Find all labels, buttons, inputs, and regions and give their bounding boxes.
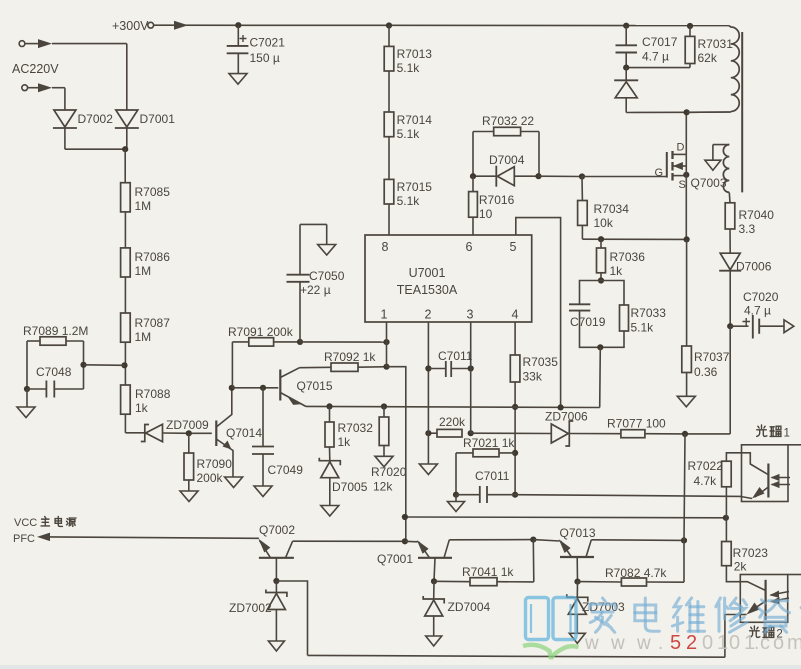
svg-text:1M: 1M	[135, 199, 152, 213]
svg-text:Q7002: Q7002	[259, 523, 295, 537]
ground C7011 lower	[448, 502, 465, 512]
wire R7032 right leg	[521, 132, 539, 177]
node mid bus left	[402, 514, 408, 520]
wire R7082 right leg	[647, 540, 685, 582]
node opto2 label	[750, 626, 783, 641]
node Q7013 base node	[574, 579, 580, 585]
node C7048 left node	[24, 386, 30, 392]
svg-text:R7013: R7013	[397, 47, 433, 61]
svg-text:R7015: R7015	[397, 180, 433, 194]
svg-text:5.1k: 5.1k	[397, 194, 421, 208]
svg-text:5.1k: 5.1k	[397, 61, 421, 75]
svg-text:33k: 33k	[523, 370, 543, 384]
resistor R7033	[600, 281, 666, 348]
node C7049 node	[260, 385, 266, 391]
capacitor C7020	[730, 290, 784, 339]
node rail C7021 junction	[235, 22, 241, 28]
svg-text:R7085: R7085	[135, 185, 171, 199]
svg-text:0.36: 0.36	[694, 365, 718, 379]
node snubber node	[623, 65, 629, 71]
wire R7032 left leg	[473, 132, 494, 177]
node Q7002 base node	[273, 578, 279, 584]
svg-text:6: 6	[466, 240, 473, 254]
svg-text:R7016: R7016	[479, 193, 515, 207]
node D7004 right node	[535, 173, 541, 179]
svg-text:5.1k: 5.1k	[631, 321, 655, 335]
resistor R7032 22ohm	[482, 114, 534, 136]
ground secondary top	[705, 160, 721, 170]
svg-text:5: 5	[510, 240, 517, 254]
svg-text:Q7001: Q7001	[377, 552, 413, 566]
svg-text:D: D	[677, 142, 685, 154]
wire D7006 to C7020 node	[729, 271, 731, 326]
wire pin4 to opto1 emitter	[515, 495, 741, 497]
svg-text:1M: 1M	[135, 330, 152, 344]
capacitor C7011 lower	[456, 469, 515, 503]
wire R7086 to R7087	[124, 277, 126, 313]
watermark url	[584, 632, 801, 654]
wire Q7001 collector right	[449, 539, 533, 541]
wire D7002 bottom to junction	[65, 129, 125, 150]
zener ZD7006	[545, 410, 588, 447]
svg-text:220k: 220k	[439, 415, 466, 429]
wire Q7015 collector to R7092	[300, 366, 332, 368]
wire C7019 bottom to bus	[599, 347, 602, 407]
svg-text:4.7 µ: 4.7 µ	[744, 304, 771, 318]
ground D7005	[321, 506, 339, 517]
wire Q7013 emitter wire	[533, 540, 559, 541]
resistor R7077	[607, 417, 666, 438]
node +300V input terminal	[112, 19, 188, 33]
svg-text:5: 5	[670, 632, 681, 654]
node R7092 node	[383, 364, 389, 370]
svg-text:Q7013: Q7013	[560, 526, 596, 540]
wire R7023 to opto2	[726, 566, 765, 591]
node 220k right node	[468, 430, 474, 436]
svg-text:1k: 1k	[338, 435, 352, 449]
wire R7035 to pin4 lower	[514, 382, 516, 495]
svg-text:C7011: C7011	[475, 469, 510, 483]
transistor Q7013	[559, 526, 596, 557]
svg-text:R7032 22: R7032 22	[482, 114, 534, 128]
svg-text:2: 2	[425, 308, 432, 322]
svg-text:+22 µ: +22 µ	[300, 283, 331, 297]
svg-text:R7077 100: R7077 100	[607, 417, 666, 431]
svg-text:w: w	[610, 633, 625, 654]
svg-text:C7048: C7048	[36, 365, 72, 379]
wire R7091 to C7050 node	[274, 341, 300, 343]
svg-text:R7091 200k: R7091 200k	[228, 325, 294, 339]
svg-text:Q7014: Q7014	[226, 426, 262, 440]
wire R7077 to node	[645, 433, 685, 435]
ground ZD7004	[426, 636, 442, 646]
svg-text:S: S	[679, 179, 686, 191]
node junction A	[122, 146, 128, 152]
node bus R7020 node	[381, 403, 387, 409]
resistor R7022	[688, 459, 732, 488]
ground C7049	[254, 486, 272, 497]
svg-text:C7017: C7017	[642, 35, 678, 49]
svg-text:R7092 1k: R7092 1k	[324, 350, 376, 364]
transistor opto2 phototransistor	[740, 580, 789, 620]
node rail C7017 junction	[623, 23, 629, 29]
resistor R7015	[384, 179, 432, 208]
wire PFC wire	[37, 533, 259, 542]
resistor R7085	[121, 183, 171, 213]
resistor R7016	[469, 176, 515, 235]
wire R7031 bottom link	[626, 64, 690, 68]
node C7011 lower left node	[453, 492, 459, 498]
node mid bus right	[723, 515, 729, 521]
wire emitter bus	[306, 406, 600, 407]
wire C7048 to ground	[26, 389, 28, 407]
zener ZD7003	[567, 582, 625, 634]
node source row node	[684, 236, 690, 242]
node bus pin5 node	[558, 404, 564, 410]
wire R7015 to pin 8	[388, 204, 390, 235]
svg-text:4: 4	[512, 308, 519, 322]
node Q7001 base node	[431, 578, 437, 584]
resistor R7090	[184, 433, 232, 485]
diode D7004	[473, 153, 525, 187]
wire Q7002 collector right	[293, 540, 405, 542]
wire rail to R7013	[388, 26, 390, 47]
wire R7092 to pin1 node	[358, 366, 387, 369]
svg-text:VCC: VCC	[14, 517, 37, 529]
svg-text:10k: 10k	[594, 216, 614, 230]
transistor Q7002	[259, 523, 296, 558]
inductor transformer secondary	[713, 145, 729, 193]
diode D7006	[719, 253, 771, 273]
node AC220V label	[12, 62, 59, 76]
svg-text:C7050: C7050	[309, 269, 345, 283]
svg-text:5.1k: 5.1k	[397, 127, 421, 141]
ground C7048	[17, 407, 35, 418]
svg-text:R7090: R7090	[197, 457, 233, 471]
node pin1 upper node	[383, 339, 389, 345]
svg-text:PFC: PFC	[13, 533, 35, 545]
svg-text:w: w	[636, 633, 651, 654]
wire Q7013 collector right	[591, 539, 684, 542]
wire R7077 node down	[684, 434, 685, 541]
wire R7040 to D7006	[729, 229, 731, 253]
node bus R7032 node	[326, 403, 332, 409]
resistor R7082	[605, 566, 667, 586]
svg-text:R7035: R7035	[523, 355, 559, 369]
node Q7013 collector node	[681, 537, 687, 543]
svg-text:150 µ: 150 µ	[250, 51, 280, 65]
svg-text:2: 2	[686, 632, 697, 654]
wire R7089 right leg	[66, 341, 84, 389]
resistor R7086	[121, 248, 171, 278]
node VCC label	[14, 517, 76, 530]
capacitor C7011 upper	[428, 349, 472, 377]
wire ZD7006 to R7077	[569, 433, 621, 435]
zener D7005	[319, 447, 367, 506]
resistor R7023	[722, 542, 769, 574]
wire pin3 line	[470, 322, 472, 433]
zener ZD7002	[229, 581, 287, 641]
resistor R7020	[371, 407, 407, 494]
node R7089 right node	[80, 362, 86, 368]
svg-text:R7022: R7022	[688, 459, 724, 473]
wire R7041 right leg	[497, 540, 534, 582]
svg-text:3: 3	[467, 308, 474, 322]
node D7004 left node	[470, 173, 476, 179]
node pin2 C7011 node	[425, 365, 431, 371]
node divider tap	[121, 362, 127, 368]
wire R7041 left leg	[434, 580, 470, 582]
node C7020 node	[727, 323, 733, 329]
wire R7085 to R7086	[124, 212, 126, 248]
wire pin2 line	[427, 322, 429, 464]
wire gate wire	[582, 176, 667, 178]
svg-text:C7020: C7020	[743, 290, 779, 304]
svg-text:12k: 12k	[373, 480, 393, 494]
node Q7015 base node	[229, 385, 235, 391]
svg-text:3.3: 3.3	[739, 222, 756, 236]
wire C7011 ground stub	[455, 495, 457, 502]
svg-text:1: 1	[381, 308, 388, 322]
svg-text:AC220V: AC220V	[12, 62, 59, 76]
node AC220V input terminal 2	[22, 83, 52, 92]
svg-text:m: m	[787, 632, 801, 654]
ground C7050	[318, 245, 336, 256]
capacitor C7019	[569, 281, 606, 348]
capacitor C7049	[252, 388, 303, 486]
node Q7001 collector node	[530, 537, 536, 543]
svg-text:ZD7004: ZD7004	[448, 600, 491, 614]
svg-text:R7087: R7087	[135, 316, 171, 330]
svg-text:R7014: R7014	[397, 113, 433, 127]
wire tap link	[84, 364, 125, 367]
capacitor C7017	[616, 26, 678, 68]
node PFC label	[13, 533, 35, 545]
resistor R7034	[578, 177, 630, 231]
svg-text:C7011: C7011	[438, 349, 473, 363]
op-amp U7001 TEA1530A	[365, 235, 532, 322]
node pin4 R7021 node	[512, 450, 518, 456]
wire snubber bottom to drain	[626, 111, 686, 113]
wire R7034 to row	[582, 225, 686, 239]
node Q7001 emitter node	[402, 538, 408, 544]
node R7036 bottom node	[598, 277, 604, 283]
wire R7022 bottom to R7023	[725, 487, 727, 542]
svg-text:R7032: R7032	[338, 421, 374, 435]
wire R7014 to R7015	[388, 137, 390, 180]
wire Q7013 base down	[576, 557, 578, 582]
svg-text:R7037: R7037	[694, 350, 730, 364]
wire Q7002 base down	[275, 558, 277, 581]
svg-text:C7019: C7019	[570, 315, 606, 329]
node R7077 right node	[682, 431, 688, 437]
resistor R7032 1k	[325, 406, 373, 449]
resistor R7040	[725, 203, 774, 236]
wire 220k to ZD7006	[471, 432, 552, 434]
ground ZD7002	[268, 641, 284, 651]
node drain node	[684, 109, 690, 115]
transistor opto1 phototransistor	[742, 464, 791, 499]
svg-text:R7089 1.2M: R7089 1.2M	[23, 324, 88, 338]
ground pin2	[419, 464, 437, 475]
node rail R7031 junction	[687, 23, 693, 29]
node ZD7009 node	[186, 430, 192, 436]
svg-text:C7049: C7049	[268, 463, 304, 477]
node AC220V input terminal 1	[19, 39, 52, 48]
wire pin4 line	[514, 322, 516, 355]
svg-text:R7036: R7036	[610, 250, 646, 264]
resistor 220k	[437, 415, 466, 437]
svg-text:R7020: R7020	[371, 465, 407, 479]
node 220k left node	[425, 430, 431, 436]
wire source to R7037	[686, 239, 688, 346]
node C7019 bottom node	[597, 344, 603, 350]
svg-text:U7001: U7001	[409, 266, 446, 280]
node C7050 node	[297, 339, 303, 345]
wire C7050 node to pin1	[300, 341, 387, 343]
diode snubber	[614, 68, 638, 113]
wire pin5 route	[516, 218, 561, 408]
svg-text:R7023: R7023	[733, 546, 769, 560]
svg-text:R7031: R7031	[698, 37, 734, 51]
node pin4 C7011 node	[512, 492, 518, 498]
wire R7091 left leg	[232, 342, 248, 388]
resistor R7013	[384, 46, 432, 75]
resistor R7037	[682, 346, 730, 379]
svg-text:R7088: R7088	[135, 387, 171, 401]
zener ZD7009	[141, 418, 209, 442]
wire R7020 to ground	[383, 446, 385, 457]
node rail R7013 junction	[386, 22, 392, 28]
watermark text	[589, 598, 801, 632]
ground C7021	[229, 74, 247, 85]
ground ZD7003	[569, 633, 585, 643]
transistor Q7014	[216, 388, 262, 477]
wire R7037 to ground	[686, 373, 688, 397]
svg-text:c: c	[760, 632, 770, 654]
node R7036 top node	[598, 236, 604, 242]
wire R7013 to R7014	[388, 71, 390, 112]
node opto1 label	[757, 425, 790, 440]
svg-text:Q7015: Q7015	[297, 379, 333, 393]
svg-text:1: 1	[717, 632, 728, 654]
svg-text:ZD7002: ZD7002	[229, 601, 272, 615]
svg-text:G: G	[655, 167, 664, 179]
svg-text:62k: 62k	[698, 51, 718, 65]
svg-text:R7082 4.7k: R7082 4.7k	[605, 566, 667, 580]
resistor R7014	[384, 112, 432, 141]
svg-text:0: 0	[729, 632, 740, 654]
resistor R7087	[121, 313, 171, 344]
wire source down	[685, 154, 687, 239]
wire Q7015 base wire	[232, 387, 278, 389]
svg-text:200k: 200k	[197, 471, 224, 485]
wire pin1 line	[386, 322, 388, 367]
svg-text:o: o	[773, 632, 784, 654]
ground R7090	[180, 491, 198, 502]
svg-text:.: .	[754, 633, 759, 654]
wire R7087 to R7088	[124, 342, 126, 385]
optocoupler opto1 box	[742, 445, 801, 502]
wire D7001 bottom to junction	[126, 129, 128, 150]
wire input2 to D7002	[52, 88, 65, 110]
svg-text:4.7 µ: 4.7 µ	[642, 50, 669, 64]
svg-text:D7002: D7002	[78, 112, 114, 126]
resistor R7088	[121, 385, 171, 415]
zener ZD7004	[423, 581, 490, 636]
svg-text:2k: 2k	[734, 560, 748, 574]
wire mid bus	[405, 516, 726, 519]
svg-text:1: 1	[784, 428, 790, 440]
svg-text:4.7k: 4.7k	[694, 474, 718, 488]
wire R7089 left leg	[27, 341, 40, 389]
transistor Q7015	[280, 368, 333, 407]
transistor Q7001	[377, 540, 452, 566]
wire opto2 emitter to bottom bus	[725, 615, 740, 658]
ground R7037	[677, 396, 695, 407]
capacitor C7050	[287, 224, 345, 342]
inductor transformer primary	[687, 26, 740, 113]
wire +300V rail	[161, 24, 729, 26]
wire bottom bus	[308, 655, 725, 657]
node pin4 bus node	[512, 404, 518, 410]
svg-text:D7001: D7001	[140, 112, 176, 126]
svg-text:D7004: D7004	[489, 153, 525, 167]
diode D7001	[115, 110, 175, 128]
node Q7003 source node	[683, 172, 689, 178]
wire transformer core	[741, 32, 743, 192]
svg-text:10: 10	[479, 207, 493, 221]
svg-text:D7005: D7005	[332, 480, 368, 494]
wire Q7001 emitter link	[405, 540, 418, 543]
wire D7004 anode wire	[514, 175, 538, 177]
svg-text:D7006: D7006	[736, 260, 772, 274]
resistor R7092	[324, 350, 376, 371]
svg-text:TEA1530A: TEA1530A	[397, 283, 458, 297]
node VCC output arrow	[784, 320, 794, 333]
svg-text:R7041 1k: R7041 1k	[462, 565, 514, 579]
svg-text:ZD7009: ZD7009	[166, 418, 209, 432]
wire secondary to R7040	[728, 192, 731, 202]
svg-text:R7040: R7040	[739, 208, 775, 222]
svg-text:R7033: R7033	[631, 306, 667, 320]
watermark logo	[523, 598, 579, 660]
resistor R7091	[228, 325, 294, 346]
svg-text:1k: 1k	[610, 264, 624, 278]
wire R7092 node down	[387, 367, 406, 542]
wire drain link	[687, 111, 731, 113]
resistor R7031	[685, 26, 733, 65]
optocoupler opto2 box	[740, 575, 801, 623]
wire node to gate row	[539, 175, 583, 177]
svg-text:ZD7006: ZD7006	[545, 410, 588, 424]
svg-text:1M: 1M	[135, 264, 152, 278]
wire Q7001 base down	[434, 558, 435, 582]
wire R7021 right leg	[499, 452, 515, 454]
svg-text:+300V: +300V	[112, 19, 149, 33]
wire R7022 top link	[726, 453, 766, 474]
svg-text:w: w	[584, 633, 599, 654]
wire R7082 left leg	[578, 581, 622, 583]
svg-text:R7034: R7034	[594, 202, 630, 216]
wire C7020 node down to R7077 row	[685, 326, 730, 434]
wire 220k left leg	[428, 432, 437, 434]
diode D7002	[53, 110, 113, 128]
wire ZD7009 to Q7014 base	[163, 432, 212, 434]
svg-text:R7086: R7086	[135, 250, 171, 264]
node pin3 C7011 node	[468, 365, 474, 371]
resistor R7035	[510, 355, 558, 384]
